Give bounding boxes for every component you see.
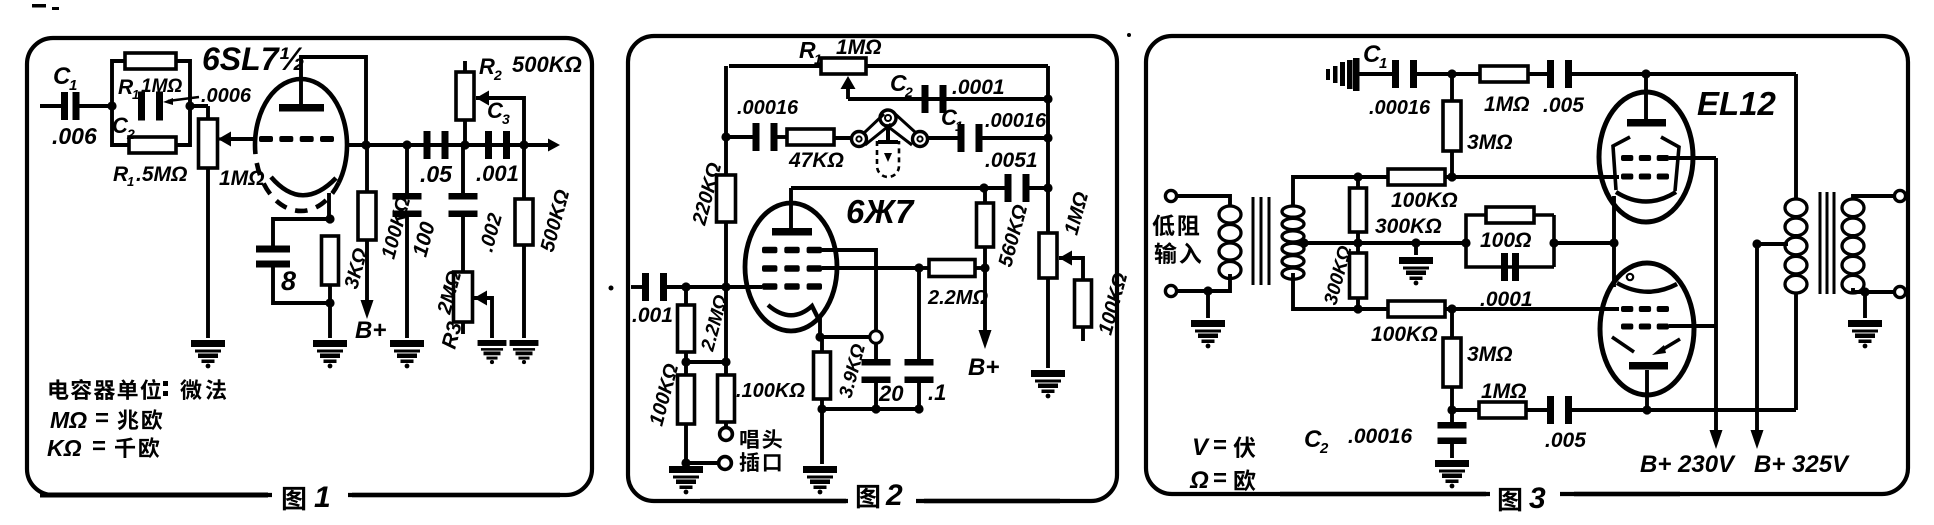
node screen feed <box>980 263 989 272</box>
arrowhead R3 wiper <box>474 291 487 306</box>
wire plate line upper <box>1646 72 1796 76</box>
wire to ground <box>1206 291 1210 318</box>
resistor 100K (to jack) <box>718 375 735 422</box>
svg-text:20: 20 <box>878 381 904 406</box>
svg-text:3MΩ: 3MΩ <box>1467 131 1513 154</box>
wire suppressor to 22M <box>822 266 919 270</box>
node plate upper <box>1641 69 1650 78</box>
crossover loop (screen/cathode) <box>870 331 882 343</box>
node row1 left <box>1353 172 1362 181</box>
label eq4 <box>1213 465 1227 492</box>
node cathodes <box>1609 238 1618 247</box>
wire <box>684 287 688 305</box>
ground (sideways, C1) <box>1326 58 1360 91</box>
output transformer secondary coil <box>1842 199 1864 293</box>
tube V3 screen grid (dashed) <box>1621 155 1669 161</box>
label 220K rot <box>688 160 726 228</box>
parallel loop 100ohm/.0001 frame <box>1466 215 1554 267</box>
wire <box>1528 72 1550 76</box>
svg-text:2: 2 <box>493 67 502 83</box>
tube V1 grid (dashed) <box>259 136 334 142</box>
wire to jack bottom <box>686 461 718 465</box>
label C1 sub p2 <box>955 118 963 134</box>
label 560K rot <box>995 202 1033 269</box>
svg-text:8: 8 <box>281 266 296 296</box>
tube V4 cathode circle deco <box>1627 274 1633 280</box>
svg-text:B+ 230V: B+ 230V <box>1640 451 1736 478</box>
svg-text:1: 1 <box>1379 55 1387 72</box>
node 560K top <box>979 183 988 192</box>
wire input <box>40 104 62 108</box>
resistor R1 .5M (bottom, horizontal) <box>129 137 176 153</box>
label .0051 <box>985 149 1038 172</box>
label 2M rot <box>433 268 466 317</box>
wire <box>724 222 728 287</box>
label fig1 num <box>314 481 331 514</box>
wire <box>684 362 688 375</box>
label 22M <box>927 287 988 309</box>
label 8 <box>281 266 296 296</box>
wire to .00016 <box>726 135 756 139</box>
node rail C2 <box>1043 94 1052 103</box>
wire screen lower <box>1669 324 1716 328</box>
wire cap 100 to ground <box>405 214 409 338</box>
label eq1 <box>95 405 109 432</box>
svg-text:.006: .006 <box>52 123 97 149</box>
wire R3 stub <box>461 322 465 334</box>
wire to cathodes <box>1554 241 1614 245</box>
panel 2 frame <box>628 36 1117 508</box>
text qian-ou <box>115 437 159 458</box>
svg-text:2: 2 <box>885 479 903 512</box>
svg-text:KΩ: KΩ <box>47 435 82 461</box>
node input A <box>681 282 690 291</box>
label .005 top <box>1543 94 1584 117</box>
output transformer core <box>1820 192 1834 294</box>
pickup needle tee <box>878 126 898 142</box>
input transformer core <box>1253 197 1269 285</box>
node after .05 <box>460 140 469 149</box>
svg-text:1MΩ: 1MΩ <box>219 167 265 190</box>
wire center tap output <box>1757 242 1788 246</box>
svg-text:1MΩ: 1MΩ <box>1484 93 1530 116</box>
wire fig1 left line <box>40 493 268 498</box>
node output ground <box>1860 287 1869 296</box>
capacitor 8 (cathode bypass) <box>256 246 290 268</box>
label 100K upper <box>1391 189 1458 212</box>
svg-text:2: 2 <box>1319 440 1329 457</box>
svg-text:R: R <box>479 54 495 79</box>
wire <box>774 135 787 139</box>
tube V1 6SL7 envelope (solid top) <box>255 79 347 183</box>
wire secondary bottom out <box>1853 288 1894 292</box>
wire cap 8 bottom <box>273 265 330 303</box>
node 3M1 bottom <box>1447 172 1456 181</box>
label 100 rot <box>409 219 440 259</box>
wire secondary top out <box>1853 196 1894 200</box>
label tube 6SL7 <box>202 41 305 77</box>
capacitor .005 (lower) <box>1547 396 1572 424</box>
label C2 sub p2 <box>904 84 913 100</box>
wire <box>1358 175 1388 179</box>
node divider A <box>681 357 690 366</box>
svg-text:.5MΩ: .5MΩ <box>136 163 187 186</box>
node center tap output <box>1752 239 1761 248</box>
label 3K rot <box>341 245 373 291</box>
ground (500K) <box>510 340 539 364</box>
wire <box>686 360 726 364</box>
label 500K R2 <box>512 52 582 77</box>
wire row1 to tube <box>1445 175 1619 179</box>
wire center tap <box>1304 241 1358 245</box>
text chakou <box>740 452 781 472</box>
label .00016 right <box>985 110 1047 132</box>
capacitor C1 .00016 (panel3) <box>1392 60 1417 88</box>
label R1 sub <box>132 87 139 102</box>
svg-text:EL12: EL12 <box>1697 85 1777 122</box>
pickup head (cartridge) left pivot <box>852 132 867 147</box>
wire <box>724 137 728 175</box>
node loop left <box>1461 238 1470 247</box>
wire to pot <box>190 104 208 108</box>
capacitor .005 (upper) <box>1547 60 1572 88</box>
text shuru <box>1155 242 1202 264</box>
svg-text:.0001: .0001 <box>952 76 1005 99</box>
label 47K <box>788 149 844 172</box>
wire to primary bottom <box>1794 292 1798 410</box>
tube V2 6Zh7 envelope <box>745 203 837 331</box>
ground (input divider) <box>669 466 703 494</box>
label B+ p2 <box>968 354 999 381</box>
tube V4 control grid (dashed) <box>1621 306 1669 312</box>
wire <box>686 285 726 289</box>
wire plate line lower <box>1647 408 1796 412</box>
resistor 3M (upper) <box>1443 101 1461 151</box>
wire wiper <box>218 137 232 140</box>
wire R2 top stub <box>463 61 467 72</box>
tube V2 cathode arc <box>768 305 819 320</box>
text dizu <box>1152 214 1199 236</box>
output terminal bottom <box>1894 286 1905 297</box>
label R1 <box>118 76 134 99</box>
node after .001 <box>519 140 528 149</box>
wire <box>1450 442 1454 458</box>
capacitor .002 <box>449 193 478 217</box>
resistor 100K (wiper) <box>1075 280 1092 327</box>
svg-text:47KΩ: 47KΩ <box>788 149 844 172</box>
wire secondary top <box>1293 177 1358 207</box>
wire <box>1356 243 1360 253</box>
wire to cap .1 <box>917 268 921 362</box>
resistor 1M (upper) <box>1480 66 1528 82</box>
wire pot to ground <box>206 168 210 338</box>
svg-text:100KΩ: 100KΩ <box>1371 323 1438 346</box>
tube V1 envelope dashed bottom <box>255 145 339 211</box>
wire <box>684 424 688 463</box>
wire cathode lower <box>1612 243 1616 287</box>
wire rail to ground <box>820 409 824 464</box>
pickup head right pivot <box>913 132 928 147</box>
svg-text:1: 1 <box>127 174 134 189</box>
wire cathode to loop <box>820 335 870 339</box>
wire fig2 left line <box>700 499 846 504</box>
wire <box>724 362 728 375</box>
label .006 <box>52 123 97 149</box>
node ground jack <box>681 458 690 467</box>
node C2/3M/1M <box>1447 405 1456 414</box>
svg-text:.05: .05 <box>420 161 453 187</box>
wire <box>684 352 688 362</box>
node C1/3M/1M <box>1447 69 1456 78</box>
wire input top <box>1177 196 1230 205</box>
label 100K lower <box>1371 323 1438 346</box>
output terminal top <box>1894 190 1905 201</box>
wire <box>1450 309 1454 338</box>
label 2.2M rot <box>697 293 732 355</box>
label .05 <box>420 161 453 187</box>
tube V4 EL12 lower envelope <box>1600 263 1694 395</box>
wire wiper to grid <box>231 137 254 141</box>
ground (cathode) <box>313 340 347 368</box>
label 3M upper <box>1467 131 1513 154</box>
label .0006 <box>201 85 252 107</box>
label 20 <box>878 381 904 406</box>
potentiometer R2 500K <box>456 72 474 120</box>
label 300K upper <box>1375 215 1442 238</box>
resistor 3K (cathode) <box>322 236 339 285</box>
label .00016 p3 bottom <box>1348 425 1413 448</box>
label 1M p3 top <box>1484 93 1530 116</box>
capacitor C2 .0001 <box>922 85 947 113</box>
wire wiper line <box>848 97 1048 101</box>
node rail C1 <box>1043 133 1052 142</box>
pickup head center pivot <box>880 110 896 126</box>
wire 560K to node <box>983 247 987 268</box>
wire <box>724 287 728 362</box>
arrowhead B+230 <box>1710 430 1723 449</box>
wire cap .1 down <box>917 380 921 409</box>
svg-text:.0001: .0001 <box>1480 288 1533 311</box>
text zhao-ou <box>118 409 163 430</box>
label .0001 <box>952 76 1005 99</box>
svg-text:.001: .001 <box>476 161 519 186</box>
wire <box>919 266 929 270</box>
resistor 560K (screen) <box>977 203 994 247</box>
label C1 <box>53 63 71 90</box>
wire <box>1028 186 1048 190</box>
wire 500K to ground <box>522 245 526 338</box>
resistor 3M (lower) <box>1443 338 1461 387</box>
output transformer primary coil <box>1785 199 1807 293</box>
svg-text:.00016: .00016 <box>1369 97 1431 119</box>
wire <box>1414 243 1418 255</box>
label fig2 num <box>885 479 903 512</box>
label .00016 left <box>737 97 799 119</box>
svg-text:1MΩ: 1MΩ <box>836 36 882 59</box>
label 3.9K rot <box>836 342 871 401</box>
label R1b sub <box>127 174 134 189</box>
tube V2 plate bar <box>772 228 812 236</box>
svg-text:3: 3 <box>1529 482 1546 515</box>
wire 100K to B+ <box>365 240 369 308</box>
node cathode <box>325 214 334 223</box>
label tube EL12 <box>1697 85 1777 122</box>
ground (cathode 6Zh7) <box>803 466 837 494</box>
wire to B+ <box>983 268 987 338</box>
wire B+325 line <box>1755 244 1759 437</box>
label C2 sub <box>126 126 135 142</box>
svg-text:1MΩ: 1MΩ <box>1481 380 1527 403</box>
input transformer primary coil <box>1219 206 1241 279</box>
resistor 3.9K (cathode) <box>814 352 831 399</box>
wire <box>1356 177 1360 188</box>
wire <box>1450 74 1454 101</box>
text fig3 tu <box>1499 488 1521 511</box>
capacitor .05 <box>424 131 449 159</box>
node ground mid <box>1411 238 1420 247</box>
resistor 100K (left) <box>678 375 695 424</box>
label fig3 num <box>1529 482 1546 515</box>
wire cathode stem <box>818 318 822 337</box>
resistor 22M (grid leak) <box>929 260 975 277</box>
capacitor 100 <box>393 193 422 217</box>
wire R1 wiper <box>846 80 850 99</box>
potentiometer R3 2M <box>454 272 473 322</box>
wire 3K to ground <box>328 285 332 338</box>
tube V4 cathode arc <box>1617 283 1677 292</box>
label 1M rot p2 <box>1061 189 1094 237</box>
wire to ground out <box>1863 292 1867 318</box>
label C3 sub <box>502 111 510 127</box>
label R1 p2 <box>799 37 816 63</box>
label MOhm <box>50 407 87 433</box>
tube V3 cathode arc <box>1616 192 1676 202</box>
node plate <box>361 140 370 149</box>
text fu <box>1233 436 1255 458</box>
capacitor .0001 (in loop) <box>1501 253 1519 281</box>
node row2 left <box>1353 304 1362 313</box>
pickup head arm left <box>864 114 891 145</box>
wire from R1 .5M <box>176 106 190 145</box>
wire <box>1450 151 1454 177</box>
wire input stub <box>631 285 645 289</box>
svg-text:2: 2 <box>126 126 135 142</box>
label .005 bottom <box>1545 429 1586 452</box>
wire cathode upper <box>1612 196 1616 243</box>
node input ground <box>1203 286 1212 295</box>
label .0001 p3 <box>1480 288 1533 311</box>
ground (1M pot) <box>1031 370 1065 398</box>
label .1 <box>928 380 946 405</box>
resistor 300K (lower) <box>1350 253 1367 298</box>
node divider B <box>721 357 730 366</box>
wire output line <box>347 143 551 147</box>
ground (input) <box>1191 320 1225 348</box>
label 500K rot <box>537 187 575 254</box>
svg-text:.00016: .00016 <box>737 97 799 119</box>
potentiometer 1M (output level) <box>1039 233 1057 278</box>
wire cathode down <box>327 193 331 219</box>
label 100ohm <box>1480 229 1531 252</box>
wire to R1 .5M <box>112 106 129 145</box>
svg-text:.005: .005 <box>1545 429 1586 452</box>
node network right <box>185 101 194 110</box>
label Omega <box>1189 467 1209 494</box>
svg-text:MΩ: MΩ <box>50 407 87 433</box>
tube V3 EL12 upper envelope <box>1599 92 1693 222</box>
svg-text:=: = <box>1213 465 1227 492</box>
label .002 rot <box>476 211 507 254</box>
input terminal bottom <box>1165 285 1176 296</box>
label 1M p3 bottom <box>1481 380 1527 403</box>
svg-text:.0006: .0006 <box>201 85 252 107</box>
label tube 6Zh7 <box>846 193 915 230</box>
label .001 p2 <box>632 304 673 327</box>
label .001 <box>476 161 519 186</box>
capacitor .00016 (left) <box>753 123 778 151</box>
wire <box>820 337 824 352</box>
ground (mid) <box>1399 257 1433 285</box>
label 100K wiper rot <box>1095 270 1133 337</box>
ground (grid pot) <box>191 340 225 368</box>
wire <box>1526 408 1550 412</box>
resistor 220K <box>717 175 736 222</box>
svg-text:V: V <box>1192 434 1210 461</box>
ground (R3 wiper) <box>478 340 507 364</box>
label 100K rot <box>378 194 416 261</box>
wire R2 bottom <box>463 120 467 145</box>
wire .002 to R3 <box>461 214 465 272</box>
svg-text:1: 1 <box>814 51 822 67</box>
text colon <box>163 381 168 396</box>
wire to pickup <box>834 136 852 140</box>
tube V3 control grid (dashed) <box>1621 174 1669 180</box>
potentiometer 1M (grid) <box>199 119 218 168</box>
label C2 p2 <box>890 70 907 96</box>
pickup needle holder (dashed) <box>877 141 899 177</box>
label 1M <box>141 76 182 97</box>
wire to primary top <box>1794 74 1798 198</box>
svg-text:=: = <box>92 433 106 460</box>
node input B <box>721 282 730 291</box>
wire <box>1356 232 1360 243</box>
node left rail <box>721 132 730 141</box>
wire plate stem lower <box>1645 370 1649 410</box>
text weifa <box>180 379 226 400</box>
label R3 <box>438 319 467 351</box>
svg-text:B+ 325V: B+ 325V <box>1754 451 1850 478</box>
text ou <box>1234 469 1255 491</box>
wire <box>1414 72 1480 76</box>
capacitor C2 (parallel) <box>138 92 163 121</box>
wire R1 right <box>866 64 1048 68</box>
svg-text:2: 2 <box>904 84 913 100</box>
wire left rail top <box>724 66 728 137</box>
capacitor C1 .006 <box>61 92 80 120</box>
wire C1 to rail <box>980 136 1049 140</box>
label B+325V <box>1754 451 1850 478</box>
label KOhm <box>47 435 82 461</box>
svg-text:.0051: .0051 <box>985 149 1038 172</box>
wire <box>1450 410 1454 424</box>
svg-text:3: 3 <box>502 111 510 127</box>
wire fig3 right line <box>1574 492 1680 497</box>
label 300K lower rot <box>1321 243 1357 307</box>
wire <box>724 422 728 428</box>
wire to cap 8 <box>273 219 330 248</box>
node rail left <box>817 404 826 413</box>
svg-text:.100KΩ: .100KΩ <box>736 380 805 402</box>
